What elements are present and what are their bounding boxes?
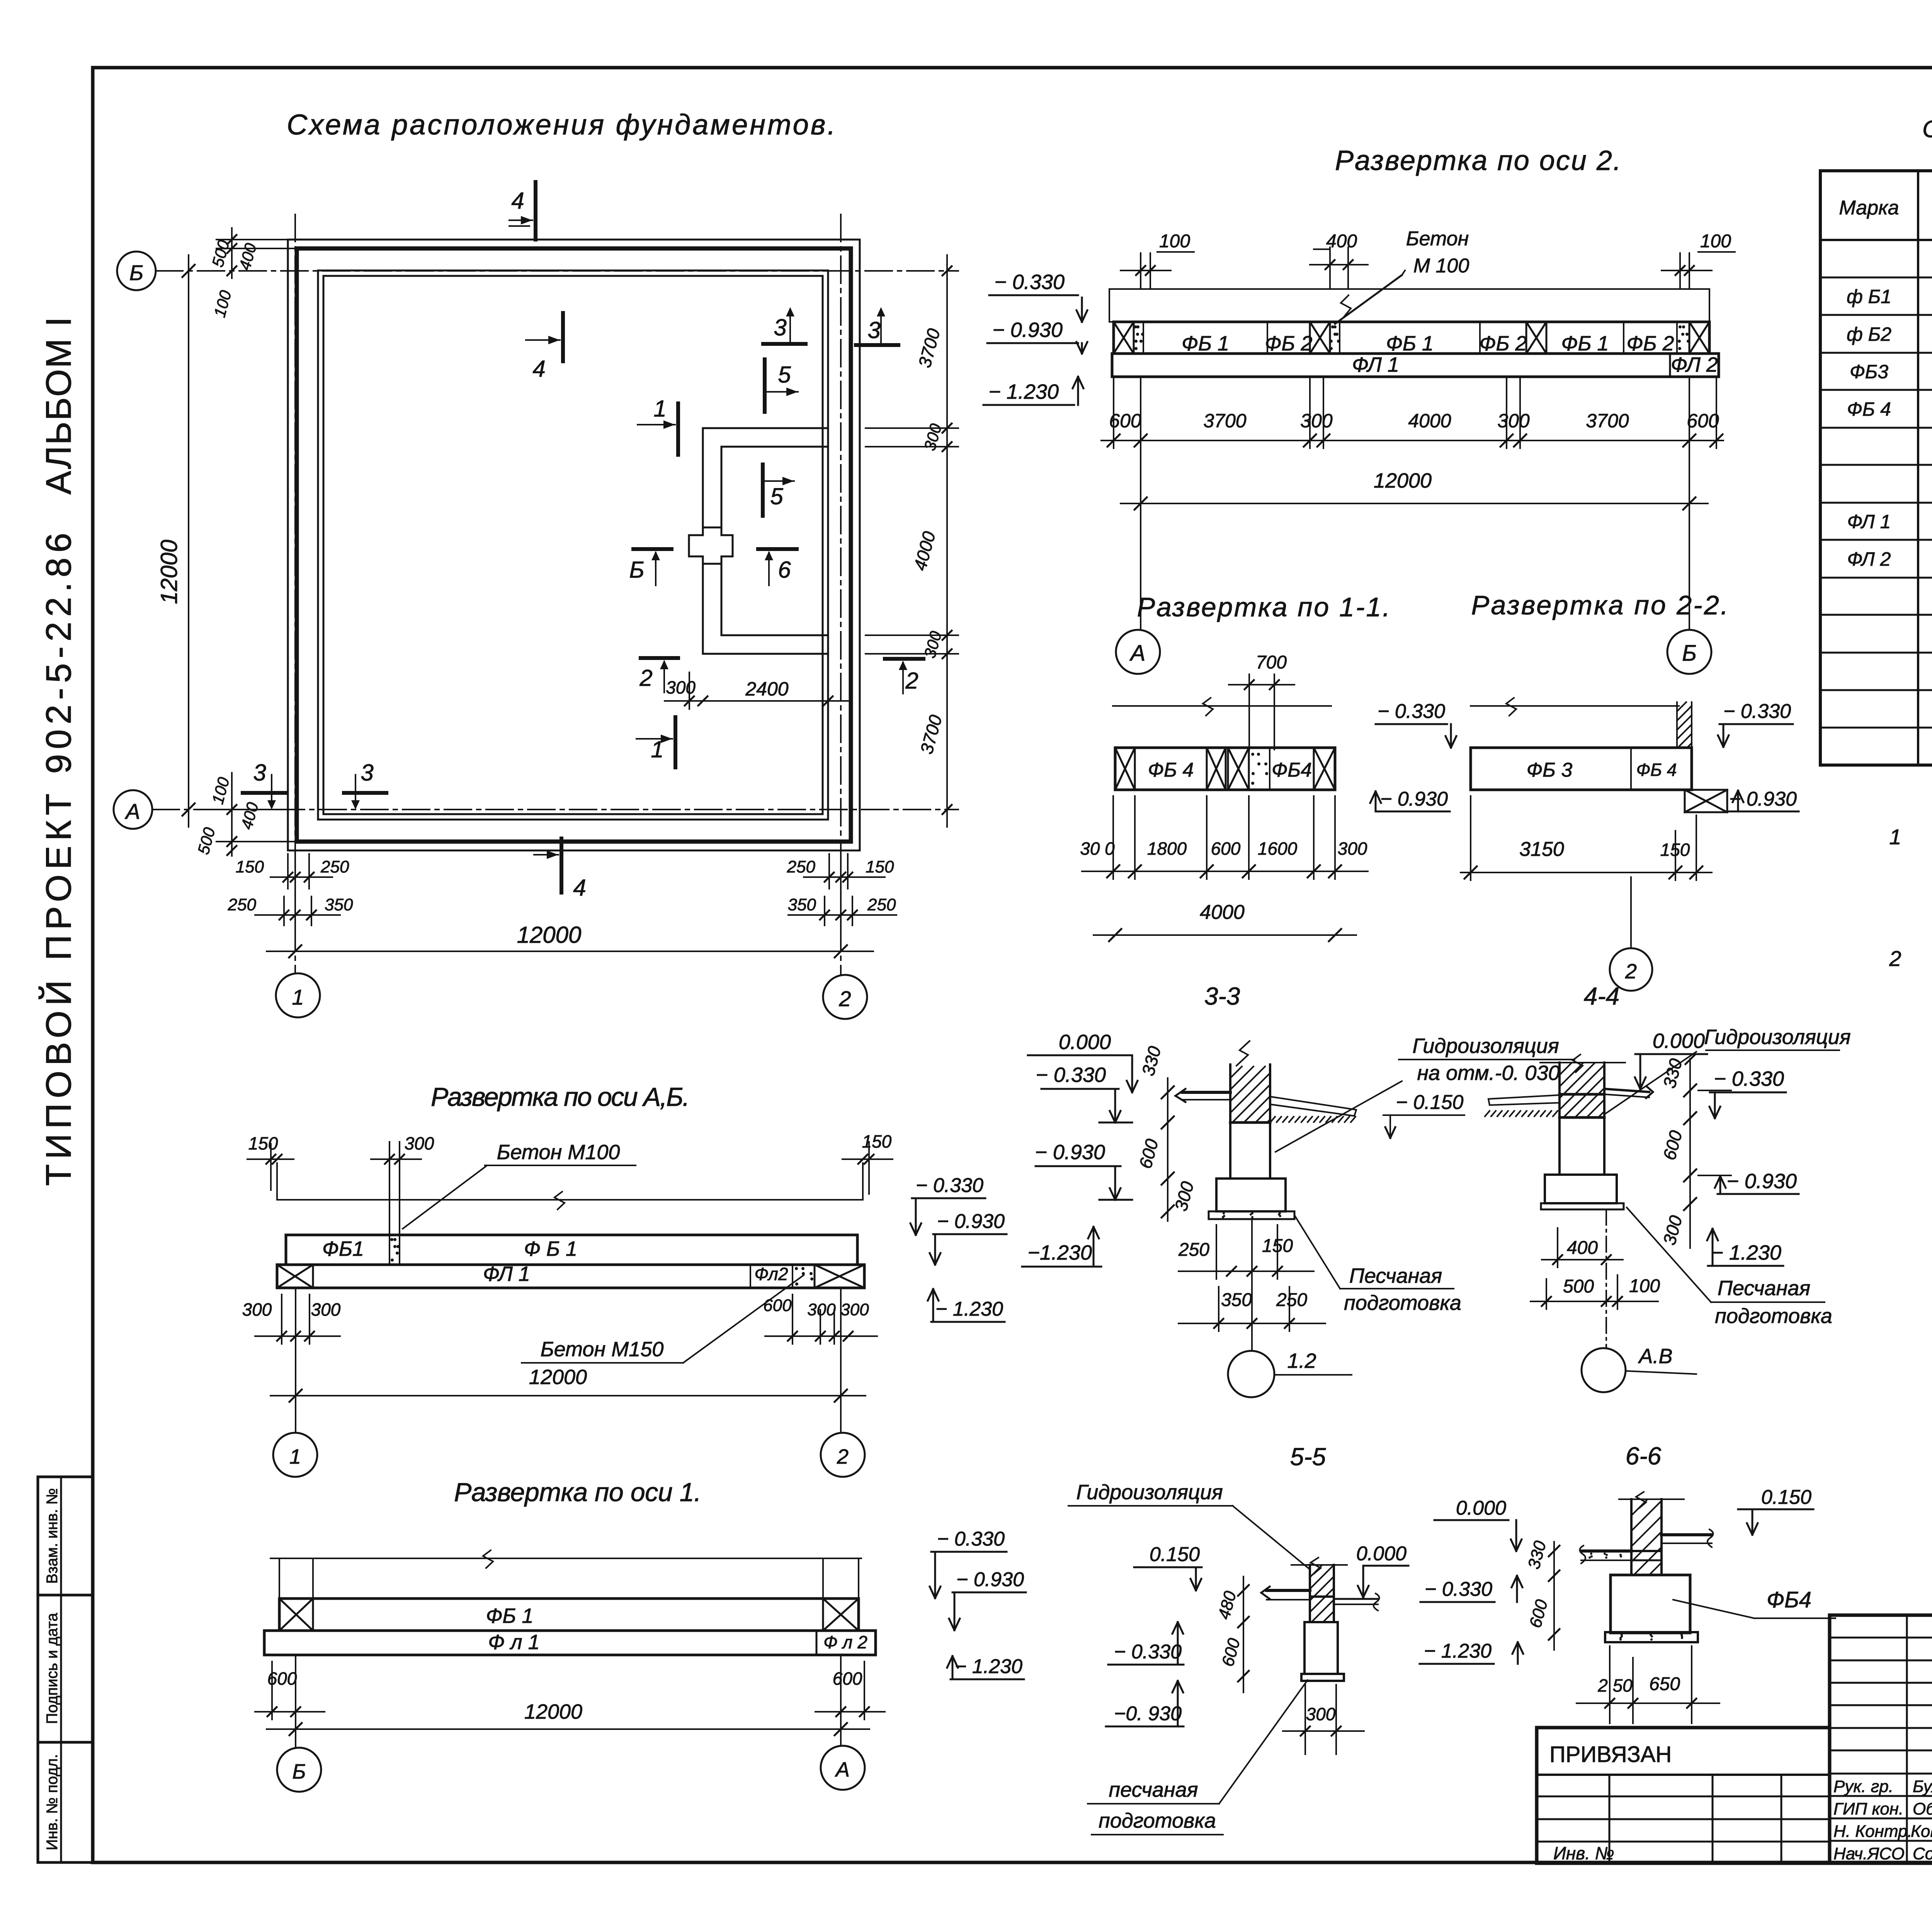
plan top-left corner dims <box>208 228 298 319</box>
svg-text:600: 600 <box>1218 1636 1244 1668</box>
razvertka 2-2 level -0.330 <box>1718 700 1793 747</box>
svg-text:1600: 1600 <box>1258 838 1298 859</box>
section mark 6 left <box>629 549 672 585</box>
razvertka 1-1 dim 700 <box>1229 652 1294 750</box>
elevation axis2 level -0.930 <box>987 318 1087 354</box>
axis circle B plan <box>117 252 156 290</box>
svg-text:4000: 4000 <box>1408 410 1451 432</box>
svg-text:− 1.230: − 1.230 <box>1424 1640 1492 1662</box>
svg-text:Песчаная: Песчаная <box>1718 1277 1810 1300</box>
elevation axis2 level -0.330 <box>989 270 1087 322</box>
notes text <box>1889 825 1932 1104</box>
section mark 1 lower <box>636 717 675 767</box>
svg-text:ФБ 4: ФБ 4 <box>1636 760 1677 780</box>
plan right dim chain <box>866 255 958 827</box>
svg-text:Развертка по оси 1.: Развертка по оси 1. <box>454 1478 701 1507</box>
razvertka 2-2 axis circle 2 <box>1610 877 1652 991</box>
svg-text:600: 600 <box>1526 1597 1551 1630</box>
svg-text:2: 2 <box>838 986 851 1011</box>
section mark 5 upper <box>765 359 798 412</box>
svg-text:Ф л 2: Ф л 2 <box>823 1632 867 1652</box>
svg-text:300: 300 <box>920 422 945 452</box>
svg-text:300: 300 <box>1338 838 1367 859</box>
section 6-6 level -0.330 <box>1420 1576 1522 1602</box>
svg-text:1800: 1800 <box>1147 838 1187 859</box>
razvertka 2-2 level -0.930 <box>1725 788 1799 811</box>
svg-text:300: 300 <box>1170 1179 1197 1213</box>
svg-text:ФЛ 1: ФЛ 1 <box>1847 511 1891 532</box>
svg-text:Фл2: Фл2 <box>754 1264 788 1284</box>
plan title <box>287 109 835 141</box>
razvertka AB beton M150 callout <box>522 1275 804 1363</box>
razvertka 2-2 wall stub <box>1677 702 1692 748</box>
razvertka AB beton callout <box>403 1141 636 1229</box>
svg-text:подготовка: подготовка <box>1099 1809 1216 1832</box>
svg-text:Б: Б <box>1682 641 1697 666</box>
svg-text:− 0.330: − 0.330 <box>916 1174 983 1197</box>
stamp label Podpis i data <box>44 1612 61 1724</box>
svg-text:ф Б2: ф Б2 <box>1847 323 1891 345</box>
elevation axis2 dim row1 <box>1101 377 1723 448</box>
svg-text:− 0.330: − 0.330 <box>994 270 1065 294</box>
section 5-5 floor left <box>1261 1587 1310 1600</box>
svg-text:А: А <box>835 1758 850 1781</box>
section 3-3 sand callout <box>1295 1216 1461 1315</box>
svg-text:12000: 12000 <box>1374 469 1432 492</box>
axis circle 1 plan <box>276 973 320 1017</box>
svg-text:Обух: Обух <box>1913 1799 1932 1818</box>
svg-text:5-5: 5-5 <box>1290 1443 1326 1471</box>
section 3-3 floor left <box>1175 1089 1230 1102</box>
section mark 3 right a <box>763 307 806 344</box>
section 6-6 wall <box>1631 1499 1662 1575</box>
section 3-3 dims below <box>1178 1225 1325 1331</box>
razvertka AB FB row <box>286 1235 857 1265</box>
svg-text:Б: Б <box>629 557 644 583</box>
section mark 5 lower <box>763 464 794 516</box>
svg-text:600: 600 <box>763 1296 792 1315</box>
section label 5-5 <box>1290 1443 1326 1471</box>
svg-text:ФБ 2: ФБ 2 <box>1626 332 1674 355</box>
svg-text:4: 4 <box>532 356 545 382</box>
section 6-6 FB4 label <box>1673 1587 1835 1618</box>
svg-text:ФБ4: ФБ4 <box>1767 1587 1811 1612</box>
svg-text:ФБ4: ФБ4 <box>1272 759 1312 781</box>
svg-text:ФБ 1: ФБ 1 <box>1386 332 1434 355</box>
svg-text:Схема расположения фундамент: Схема расположения фундаментов. <box>287 109 835 141</box>
section mark 6 right <box>758 549 797 585</box>
section 5-5 top line <box>1291 1558 1347 1574</box>
svg-text:600: 600 <box>1211 838 1241 859</box>
svg-text:250: 250 <box>867 895 896 914</box>
svg-text:100: 100 <box>1700 231 1731 252</box>
section 3-3 level -0.330 <box>1036 1063 1132 1122</box>
svg-text:3700: 3700 <box>914 326 944 370</box>
svg-text:6: 6 <box>778 557 791 583</box>
axis circle 2 plan <box>823 975 867 1019</box>
elevation axis2 axis A <box>1116 377 1160 674</box>
section 3-3 level 0.000 <box>1028 1031 1138 1092</box>
section 4-4 foundation block <box>1545 1175 1617 1203</box>
svg-text:ФБ 2: ФБ 2 <box>1479 332 1527 355</box>
svg-text:1.2: 1.2 <box>1287 1349 1316 1372</box>
svg-text:650: 650 <box>1649 1674 1680 1694</box>
plan bottom-left tie dims <box>228 854 353 935</box>
svg-text:Ковалинина: Ковалинина <box>1911 1822 1932 1841</box>
section mark 1 upper <box>638 396 678 455</box>
section 3-3 level -1.230 <box>1022 1227 1101 1267</box>
section 4-4 floor left slope <box>1485 1095 1560 1116</box>
svg-text:500: 500 <box>194 825 219 856</box>
section 4-4 floor right <box>1604 1087 1653 1098</box>
svg-text:− 0.930: − 0.930 <box>956 1568 1024 1591</box>
section 4-4 dims below <box>1531 1228 1660 1309</box>
svg-text:ФБ 1: ФБ 1 <box>486 1604 533 1628</box>
svg-text:Б: Б <box>129 260 143 285</box>
svg-text:4: 4 <box>511 188 524 214</box>
svg-text:5: 5 <box>770 483 783 509</box>
svg-text:480: 480 <box>1214 1589 1240 1621</box>
svg-text:330: 330 <box>1138 1044 1165 1078</box>
svg-text:− 1.230: − 1.230 <box>1711 1241 1781 1264</box>
title block outer <box>1830 1615 1932 1863</box>
svg-text:400: 400 <box>1326 231 1357 252</box>
svg-text:350: 350 <box>1221 1290 1252 1310</box>
svg-text:500: 500 <box>208 238 233 269</box>
section 4-4 top line <box>1540 1054 1625 1072</box>
svg-text:− 1.230: − 1.230 <box>955 1655 1022 1678</box>
section 6-6 level -1.230 <box>1420 1640 1523 1664</box>
razvertka 2-2 x block below <box>1685 790 1727 812</box>
svg-text:300: 300 <box>1497 410 1530 432</box>
svg-text:6-6: 6-6 <box>1626 1442 1662 1470</box>
svg-text:2: 2 <box>1889 946 1901 971</box>
section 6-6 vertical dims <box>1524 1539 1560 1650</box>
svg-text:4000: 4000 <box>910 529 939 573</box>
svg-text:1: 1 <box>1889 825 1901 849</box>
section 3-3 level -0.930 <box>1035 1141 1132 1200</box>
section 5-5 hydro callout <box>1068 1481 1309 1569</box>
svg-text:Рук. гр.: Рук. гр. <box>1833 1777 1893 1796</box>
svg-text:Развертка по оси 2.: Развертка по оси 2. <box>1335 145 1621 176</box>
svg-text:А: А <box>124 799 140 823</box>
svg-text:Бетон М150: Бетон М150 <box>541 1338 664 1361</box>
svg-text:2: 2 <box>905 668 918 694</box>
svg-text:−1.230: −1.230 <box>1027 1241 1092 1264</box>
section 4-4 level -0.330 <box>1698 1067 1786 1118</box>
svg-text:Бетон: Бетон <box>1406 228 1469 250</box>
section mark 2 right <box>885 659 923 694</box>
svg-text:М 100: М 100 <box>1413 255 1469 277</box>
title block left grid <box>1830 1615 1932 1863</box>
plan bottom-left corner dims <box>194 773 298 856</box>
svg-text:А: А <box>1129 641 1146 666</box>
elevation axis2 FL row <box>1112 353 1719 377</box>
section 5-5 sand callout <box>1088 1680 1308 1835</box>
section 6-6 floor right <box>1662 1529 1713 1547</box>
razvertka 1-1 dim 4000 <box>1094 901 1356 941</box>
svg-text:− 0.930: − 0.930 <box>992 318 1063 342</box>
svg-text:ФБ 1: ФБ 1 <box>1561 332 1609 355</box>
svg-text:3: 3 <box>867 317 880 343</box>
plan dim 300 2400 <box>665 672 850 709</box>
svg-text:Ф л 1: Ф л 1 <box>488 1631 539 1654</box>
section 5-5 level -0.930 <box>1106 1681 1184 1726</box>
stamp label Vzam inv <box>44 1488 61 1584</box>
plan left dim 12000 <box>156 255 195 827</box>
section 5-5 level 0.150 <box>1134 1543 1202 1590</box>
rotated text TIPOVOJ PROEKT <box>38 533 78 1186</box>
section mark 4 top <box>509 182 536 240</box>
elevation axis2 dim 100 left <box>1121 231 1194 289</box>
razvertka 1-1 top line <box>1113 698 1331 716</box>
section 5-5 wall <box>1310 1565 1334 1622</box>
razvertka AB level -0.330 <box>910 1174 985 1235</box>
section 4-4 sand callout <box>1627 1207 1832 1328</box>
section 6-6 dims below <box>1577 1646 1719 1723</box>
svg-text:150: 150 <box>866 857 894 876</box>
razvertka 1-1 level -0.330 <box>1376 700 1456 748</box>
svg-text:подготовка: подготовка <box>1715 1304 1832 1328</box>
plan inner chamber walls <box>703 428 828 654</box>
svg-text:Гидроизоляция: Гидроизоляция <box>1412 1034 1559 1058</box>
section 5-5 level 0.000 <box>1356 1543 1408 1597</box>
razvertka AB level -0.930 <box>930 1210 1007 1265</box>
svg-text:ФБ 1: ФБ 1 <box>1182 332 1229 355</box>
svg-text:300: 300 <box>807 1300 836 1319</box>
svg-text:− 0.930: − 0.930 <box>1380 788 1448 810</box>
svg-text:250: 250 <box>787 857 816 876</box>
svg-text:150: 150 <box>862 1131 892 1151</box>
elevation axis2 level -1.230 <box>983 377 1083 405</box>
svg-text:12000: 12000 <box>156 540 182 604</box>
svg-text:− 0.330: − 0.330 <box>1378 700 1445 723</box>
razvertka 1-1 blocks <box>1115 748 1335 790</box>
svg-text:30 0: 30 0 <box>1080 838 1115 859</box>
section 6-6 base plate <box>1605 1632 1698 1642</box>
title block signature rows <box>1833 1777 1932 1863</box>
elevation axis2 wall band <box>1109 289 1709 322</box>
svg-text:250: 250 <box>1178 1240 1209 1260</box>
svg-text:ФБ 2: ФБ 2 <box>1265 332 1312 355</box>
svg-text:Развертка по 2-2.: Развертка по 2-2. <box>1471 590 1728 620</box>
svg-text:330: 330 <box>1524 1539 1550 1571</box>
elevation axis2 title <box>1335 145 1621 176</box>
svg-text:3700: 3700 <box>916 713 946 756</box>
svg-text:ФЛ 2: ФЛ 2 <box>1671 353 1718 376</box>
svg-text:А.В: А.В <box>1638 1345 1672 1368</box>
svg-text:1: 1 <box>292 985 304 1009</box>
svg-text:− 1.230: − 1.230 <box>935 1298 1003 1320</box>
section label 6-6 <box>1626 1442 1662 1470</box>
svg-text:− 0.930: − 0.930 <box>937 1210 1005 1233</box>
section 5-5 vertical dims <box>1214 1577 1249 1692</box>
section 3-3 axis circle <box>1228 1219 1352 1397</box>
section 4-4 level 0.000 <box>1635 1029 1707 1089</box>
svg-text:600: 600 <box>1659 1128 1686 1162</box>
section mark 4 inner <box>526 313 563 382</box>
razvertka 2-2 dims <box>1461 796 1712 880</box>
razvertka osi1 title <box>454 1478 701 1507</box>
svg-text:100: 100 <box>1159 231 1190 252</box>
section mark 2 left <box>639 658 678 692</box>
svg-text:Булатова: Булатова <box>1913 1777 1932 1796</box>
svg-text:3700: 3700 <box>1586 410 1629 432</box>
svg-text:0.000: 0.000 <box>1356 1543 1406 1565</box>
razvertka 2-2 top line <box>1471 698 1679 716</box>
svg-text:3700: 3700 <box>1203 410 1246 432</box>
razvertka 1-1 title <box>1137 592 1390 622</box>
svg-text:150: 150 <box>248 1133 278 1153</box>
svg-text:Развертка по 1-1.: Развертка по 1-1. <box>1137 592 1390 622</box>
section 4-4 level -1.230 <box>1707 1229 1783 1266</box>
section 5-5 level -0.330 <box>1108 1622 1184 1665</box>
section 3-3 level -0.150 <box>1383 1091 1464 1138</box>
svg-text:3: 3 <box>361 760 373 786</box>
section mark 3 left b <box>344 760 386 810</box>
section 3-3 base plate <box>1209 1211 1294 1219</box>
rotated text ALBOM I <box>39 317 78 495</box>
elevation axis2 dim row2 12000 <box>1121 469 1708 510</box>
svg-text:300: 300 <box>1300 410 1333 432</box>
razvertka 2-2 blocks <box>1471 748 1692 790</box>
spec table title <box>1922 116 1932 172</box>
svg-text:− 0.330: − 0.330 <box>1723 700 1791 723</box>
axis circle A plan <box>114 790 152 829</box>
svg-text:350: 350 <box>788 895 816 914</box>
plan bottom dim 12000 <box>267 922 873 957</box>
plan inner wall edge <box>318 270 828 820</box>
privyazan box <box>1537 1728 1830 1863</box>
section mark 3 left a <box>243 760 285 810</box>
razvertka AB FL row <box>277 1262 864 1288</box>
svg-text:АЛЬБОМ I: АЛЬБОМ I <box>39 317 78 495</box>
section 3-3 floor right slope <box>1270 1097 1356 1122</box>
svg-text:Инв. № подл.: Инв. № подл. <box>44 1754 61 1850</box>
svg-text:ТИПОВОЙ ПРОЕКТ 902-5-22.86: ТИПОВОЙ ПРОЕКТ 902-5-22.86 <box>38 533 78 1186</box>
elevation axis2 concrete callout <box>1335 228 1469 324</box>
razvertka AB dim 150 right <box>842 1131 893 1194</box>
left margin stamp boxes <box>38 1477 93 1862</box>
svg-text:150: 150 <box>1660 840 1690 860</box>
axis line 2 vertical <box>840 214 842 975</box>
elevation axis2 dim 400 mid <box>1310 231 1368 289</box>
svg-text:4000: 4000 <box>1200 901 1245 923</box>
svg-text:− 1.230: − 1.230 <box>988 380 1059 403</box>
section 5-5 dim 300 <box>1283 1685 1364 1754</box>
svg-text:ФБ 4: ФБ 4 <box>1148 759 1194 781</box>
svg-text:Н. Контр.: Н. Контр. <box>1833 1822 1912 1841</box>
svg-text:100: 100 <box>210 288 235 319</box>
svg-text:0.000: 0.000 <box>1653 1029 1705 1053</box>
svg-text:300: 300 <box>405 1133 434 1153</box>
section label 3-3 <box>1204 982 1240 1010</box>
svg-text:100: 100 <box>208 775 233 806</box>
svg-text:− 0.330: − 0.330 <box>1425 1578 1492 1600</box>
svg-text:2: 2 <box>1625 960 1637 983</box>
section 6-6 top line <box>1619 1492 1684 1508</box>
razvertka osi1 FL row <box>264 1631 876 1655</box>
svg-text:ПРИВЯЗАН: ПРИВЯЗАН <box>1549 1742 1672 1767</box>
elevation axis2 axis B <box>1667 377 1711 674</box>
svg-text:12000: 12000 <box>529 1366 587 1389</box>
section 6-6 level 0.000 <box>1434 1497 1522 1551</box>
svg-text:Марка: Марка <box>1839 197 1899 219</box>
svg-text:600: 600 <box>1109 410 1141 432</box>
svg-text:1: 1 <box>289 1445 301 1468</box>
svg-text:500: 500 <box>1563 1276 1594 1297</box>
razvertka AB dim 150 left <box>247 1133 294 1190</box>
razvertka AB level -1.230 <box>928 1289 1005 1322</box>
svg-text:300: 300 <box>242 1299 272 1320</box>
section 4-4 base plate <box>1541 1203 1624 1209</box>
section 6-6 block FB4 <box>1611 1575 1690 1633</box>
svg-text:0.150: 0.150 <box>1761 1486 1811 1509</box>
razvertka AB dim 300 <box>371 1133 434 1235</box>
svg-text:12000: 12000 <box>517 922 582 948</box>
svg-text:Инв. №: Инв. № <box>1553 1843 1614 1863</box>
svg-text:− 0.330: − 0.330 <box>937 1528 1005 1550</box>
razvertka AB top line <box>277 1163 863 1209</box>
svg-text:− 0.330: − 0.330 <box>1114 1641 1182 1663</box>
svg-text:150: 150 <box>236 857 264 876</box>
svg-text:1: 1 <box>653 396 666 422</box>
svg-text:3: 3 <box>774 315 786 340</box>
svg-text:ГИП кон.: ГИП кон. <box>1833 1799 1903 1818</box>
section 5-5 base plate <box>1301 1674 1344 1681</box>
razvertka AB title <box>431 1082 690 1112</box>
razvertka AB axis circles <box>273 1288 865 1477</box>
plan outer wall <box>288 240 860 850</box>
spec table grid <box>1820 171 1932 765</box>
razvertka 1-1 level -0.930 <box>1370 788 1450 811</box>
svg-text:Нач.ЯСО: Нач.ЯСО <box>1833 1844 1905 1863</box>
svg-text:250: 250 <box>228 895 257 914</box>
razvertka 1-1 dims <box>1080 796 1368 879</box>
svg-text:Спецификация к схеме распол: Спецификация к схеме расположения <box>1922 116 1932 143</box>
svg-text:600: 600 <box>1687 410 1719 432</box>
axis line B horizontal <box>156 270 958 272</box>
svg-text:4-4: 4-4 <box>1584 982 1620 1010</box>
svg-text:2 50: 2 50 <box>1597 1675 1633 1696</box>
razvertka osi1 top line <box>270 1550 861 1568</box>
razvertka osi1 level -1.230 <box>947 1655 1024 1679</box>
svg-text:0.000: 0.000 <box>1059 1031 1111 1054</box>
razvertka AB dim 12000 <box>270 1366 866 1402</box>
svg-text:Подпись и дата: Подпись и дата <box>44 1612 61 1724</box>
section 4-4 right dim chain <box>1659 1055 1696 1248</box>
svg-text:ФБ3: ФБ3 <box>1850 361 1888 383</box>
svg-text:Гидроизоляция: Гидроизоляция <box>1704 1026 1850 1049</box>
elevation axis2 dim 100 right <box>1662 231 1735 289</box>
svg-text:300: 300 <box>1306 1704 1336 1724</box>
section 6-6 floor left <box>1580 1546 1631 1563</box>
razvertka 2-2 title <box>1471 590 1728 620</box>
section 4-4 hydro callout <box>1604 1026 1851 1114</box>
svg-text:− 0.330: − 0.330 <box>1714 1067 1784 1090</box>
svg-text:песчаная: песчаная <box>1109 1778 1198 1801</box>
svg-text:400: 400 <box>235 241 260 272</box>
section label 4-4 <box>1584 982 1620 1010</box>
svg-text:0.000: 0.000 <box>1456 1497 1506 1519</box>
svg-text:Б: Б <box>292 1760 306 1783</box>
svg-text:300: 300 <box>1659 1213 1686 1247</box>
section 4-4 axis circle <box>1582 1209 1696 1392</box>
svg-text:ф Б1: ф Б1 <box>1847 286 1891 308</box>
section mark 4 bottom <box>534 838 586 901</box>
svg-text:ФЛ 1: ФЛ 1 <box>483 1262 530 1286</box>
svg-text:0.150: 0.150 <box>1150 1543 1200 1566</box>
